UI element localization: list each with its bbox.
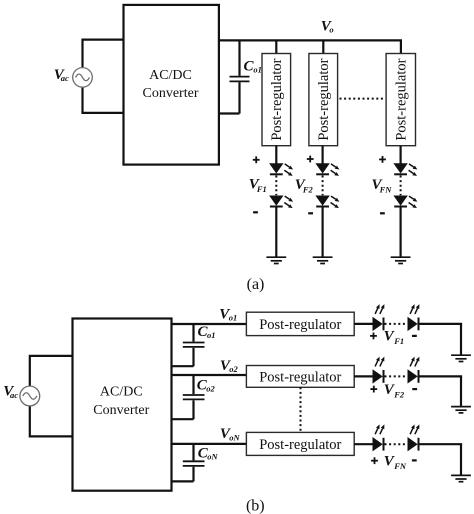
svg-text:o2: o2 xyxy=(229,364,238,374)
svg-text:(a): (a) xyxy=(247,276,265,293)
svg-text:F2: F2 xyxy=(302,184,314,194)
svg-text:Converter: Converter xyxy=(143,86,199,101)
svg-text:F1: F1 xyxy=(393,336,404,346)
svg-text:AC/DC: AC/DC xyxy=(149,68,192,83)
svg-text:Post-regulator: Post-regulator xyxy=(259,317,341,333)
svg-text:ac: ac xyxy=(10,390,18,400)
svg-text:F1: F1 xyxy=(256,184,267,194)
svg-text:oN: oN xyxy=(229,433,240,443)
svg-text:Post-regulator: Post-regulator xyxy=(259,437,341,453)
svg-text:Post-regulator: Post-regulator xyxy=(269,58,285,140)
svg-text:Post-regulator: Post-regulator xyxy=(316,58,332,140)
svg-text:Post-regulator: Post-regulator xyxy=(393,58,409,140)
svg-text:F2: F2 xyxy=(393,389,405,399)
svg-text:FN: FN xyxy=(379,184,393,194)
svg-text:Post-regulator: Post-regulator xyxy=(259,369,341,385)
svg-text:o1: o1 xyxy=(253,65,262,75)
svg-text:o2: o2 xyxy=(206,384,215,394)
svg-text:(b): (b) xyxy=(246,497,265,514)
svg-text:ac: ac xyxy=(61,73,69,83)
svg-text:o1: o1 xyxy=(229,313,238,323)
svg-text:o: o xyxy=(329,25,333,35)
svg-text:AC/DC: AC/DC xyxy=(100,385,143,400)
svg-text:oN: oN xyxy=(207,452,218,462)
svg-text:FN: FN xyxy=(393,461,407,471)
svg-text:Converter: Converter xyxy=(93,403,149,418)
svg-text:o1: o1 xyxy=(207,330,216,340)
